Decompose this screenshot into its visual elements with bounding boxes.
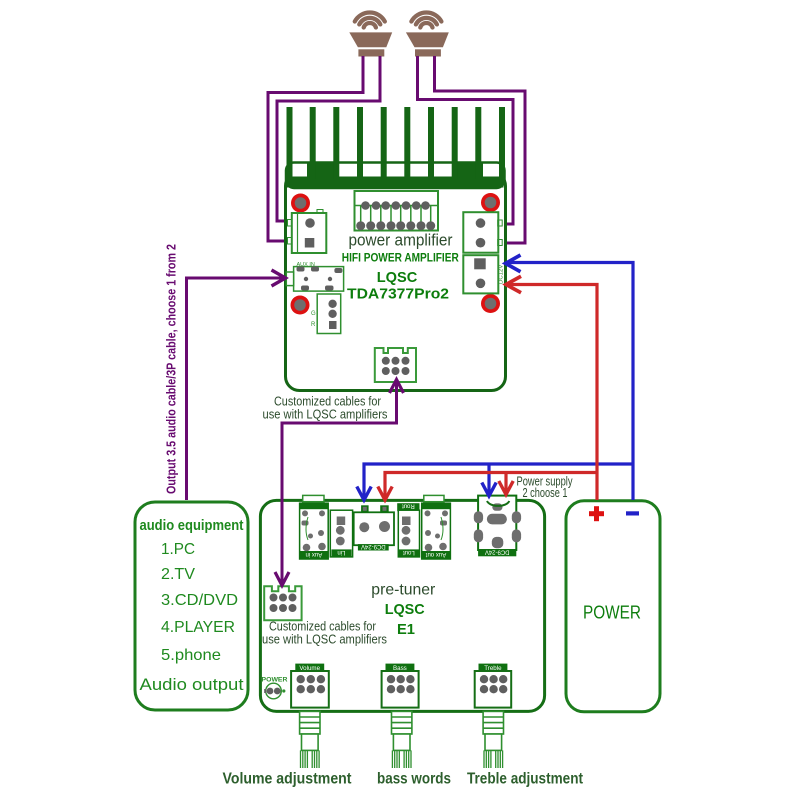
svg-text:POWER: POWER (583, 603, 641, 623)
svg-text:TDA7377Pro2: TDA7377Pro2 (347, 285, 449, 302)
wire audio-equipment to amp AUX input (187, 278, 284, 500)
svg-text:G: G (311, 311, 316, 317)
jack arc notch on top edge (487, 501, 509, 506)
wire power minus (blue) to amp (508, 263, 634, 501)
svg-text:bass words: bass words (377, 771, 451, 788)
svg-text:Volume adjustment: Volume adjustment (223, 771, 352, 788)
arrow down into pre-tuner 6-pin connector (275, 572, 289, 586)
tab above Aux out (424, 495, 444, 501)
speaker right SPK2 (406, 12, 449, 56)
Volume cable (300, 711, 320, 768)
arrow red into pre-tuner DC jack (378, 487, 392, 501)
svg-text:Rout: Rout (402, 502, 415, 508)
svg-text:Aux in: Aux in (306, 551, 323, 557)
svg-text:R: R (311, 322, 316, 328)
amp left speaker terminal block (288, 210, 327, 254)
audio equipment box (135, 502, 248, 710)
arrow red into amp DC terminal (506, 276, 521, 293)
wire speaker-left inner (L-) (277, 56, 380, 221)
pre-tuner 6-pin connector (264, 586, 301, 620)
amp right speaker terminal block (463, 212, 502, 253)
arrow blue into right DC connector (482, 483, 496, 497)
Bass connector (382, 664, 419, 708)
DC9-24V barrel jack (middle) (354, 505, 394, 550)
svg-text:5.phone: 5.phone (161, 647, 221, 664)
mounting hole top-left (291, 194, 310, 213)
amp board PCB outline (286, 172, 506, 391)
arrow up into amp 6-pin connector (390, 380, 404, 394)
Lin connector (330, 510, 352, 557)
Aux in connector (300, 503, 329, 559)
arrow blue into amp DC terminal (506, 255, 521, 272)
svg-text:HIFI POWER AMPLIFIER: HIFI POWER AMPLIFIER (342, 252, 460, 264)
svg-text:Aux out: Aux out (426, 551, 447, 557)
svg-text:use with LQSC amplifiers: use with LQSC amplifiers (262, 632, 387, 647)
amp 3-pin connector (311, 294, 341, 334)
wire speaker-right outer (R-) (435, 56, 526, 243)
label: - terminal (626, 511, 639, 515)
svg-text:LQSC: LQSC (377, 270, 418, 286)
svg-text:POWER: POWER (262, 677, 288, 684)
amp aux-in 3.5mm jack (286, 262, 343, 291)
Rout band (397, 502, 419, 511)
wire power plus (red) to amp (508, 285, 597, 501)
Treble connector (475, 664, 512, 708)
svg-text:Treble adjustment: Treble adjustment (467, 771, 583, 788)
wire speaker-right inner (R+) (418, 56, 514, 224)
arrow blue into pre-tuner DC jack (357, 487, 371, 501)
svg-text:DC9-24V: DC9-24V (361, 543, 386, 549)
svg-text:use with LQSC amplifiers: use with LQSC amplifiers (263, 407, 388, 422)
pre-tuner PCB outline (260, 500, 544, 711)
svg-text:E1: E1 (397, 621, 415, 638)
wire speaker-left outer (L+) (268, 56, 363, 241)
svg-text:2 choose 1: 2 choose 1 (523, 486, 568, 500)
svg-text:audio equipment: audio equipment (140, 517, 244, 534)
svg-text:power amplifier: power amplifier (349, 231, 453, 250)
svg-text:DC9-24V: DC9-24V (485, 549, 510, 555)
svg-text:2.TV: 2.TV (161, 566, 195, 583)
amp power terminal block (463, 255, 504, 293)
Treble cable (483, 711, 503, 768)
right DC9-24V power connector (474, 496, 521, 557)
heatsink dark block left (307, 164, 338, 178)
svg-text:LQSC: LQSC (385, 601, 425, 618)
svg-text:3.CD/DVD: 3.CD/DVD (161, 592, 238, 609)
wire power plus branch (red) to pre-tuner (385, 473, 597, 498)
amp top header connector J1 (355, 191, 439, 231)
wire red branch to right DC connector (504, 473, 507, 492)
power supply box (566, 501, 660, 712)
speaker left SPK1 (349, 13, 392, 57)
wire power minus branch (blue) to pre-tuner (364, 464, 633, 497)
svg-text:DC12V: DC12V (499, 265, 505, 284)
wire amp bottom connector to pre-tuner 6pin (282, 382, 397, 583)
heatsink dark block right (452, 164, 483, 178)
mounting hole bottom-left (291, 296, 310, 315)
label: + terminal (589, 506, 604, 521)
arrow red into right DC connector (499, 481, 513, 495)
Lout connector (398, 510, 419, 557)
svg-text:4.PLAYER: 4.PLAYER (161, 619, 235, 636)
amp bottom 6-pin connector (375, 348, 416, 382)
svg-text:Lout: Lout (403, 549, 415, 555)
heatsink bottom strip (287, 177, 504, 188)
mounting hole top-right (481, 193, 500, 212)
svg-text:Output 3.5 audio cable/3P cabl: Output 3.5 audio cable/3P cable, choose … (164, 244, 179, 494)
tab above Aux in (303, 495, 324, 501)
arrow into amp aux jack (272, 270, 286, 286)
heatsink fins (287, 107, 506, 179)
heatsink bar (286, 163, 505, 189)
mounting hole bottom-right (481, 294, 500, 313)
svg-text:pre-tuner: pre-tuner (371, 582, 436, 599)
Volume connector (291, 664, 329, 708)
svg-text:1.PC: 1.PC (161, 541, 195, 558)
power barrel icon (264, 683, 285, 699)
Aux out connector (422, 503, 451, 559)
Bass cable (392, 711, 412, 768)
wire blue branch to right DC connector (487, 464, 490, 493)
svg-text:Audio output: Audio output (140, 675, 244, 694)
svg-text:Lin: Lin (337, 549, 345, 555)
